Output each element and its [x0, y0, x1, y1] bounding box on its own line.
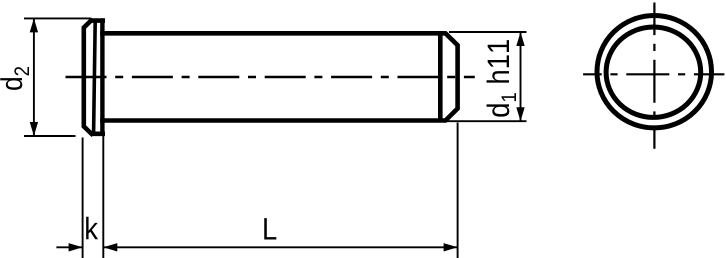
head chamfer edge line [94, 21, 96, 132]
front view horizontal centerline [583, 73, 724, 75]
k dim tail left [56, 246, 82, 248]
k ext line left [82, 138, 84, 258]
front view vertical centerline [653, 3, 655, 149]
ext line bottom [24, 135, 76, 137]
dim line [33, 18, 35, 136]
label d2 [0, 67, 29, 90]
arrow k left (pointing right) [69, 243, 83, 251]
arrow d2 bottom [30, 122, 38, 136]
dimension k and L [56, 123, 457, 258]
ext line top [449, 31, 527, 33]
head right face [100, 18, 104, 136]
ext line top [24, 17, 91, 19]
arrow d2 top [30, 18, 38, 32]
ext line bottom [444, 120, 527, 122]
front view outer circle [597, 15, 712, 127]
dimension d1 h11 [444, 32, 527, 121]
label d1 h11 [487, 40, 516, 117]
arrow d1 bottom [516, 107, 524, 121]
dimension d2 [24, 18, 91, 136]
arrow L right (pointing right) [444, 243, 458, 251]
head outline [84, 21, 105, 134]
L ext line right [457, 123, 459, 258]
L dim line [103, 246, 457, 248]
centerline side view [66, 76, 475, 78]
arrow L left (pointing left) [103, 243, 117, 251]
k ext line right [102, 136, 104, 258]
dim line [520, 32, 522, 121]
label L [264, 218, 276, 239]
arrow d1 top [516, 32, 524, 46]
shank outline [102, 33, 457, 120]
shank chamfer line [438, 33, 443, 120]
front view inner circle [606, 27, 701, 117]
label k [86, 217, 98, 239]
shank top edge [102, 33, 457, 120]
